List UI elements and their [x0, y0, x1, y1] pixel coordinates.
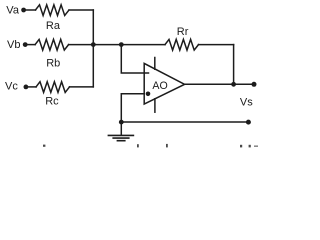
wire Rc to summing node [70, 86, 94, 88]
op-amp bottom supply pin [154, 99, 156, 112]
svg-text:Ra: Ra [46, 20, 61, 32]
wire ground stub [120, 122, 122, 135]
svg-text:Vs: Vs [240, 96, 253, 108]
svg-text:AO: AO [152, 80, 167, 92]
wire summing vertical [92, 10, 94, 87]
resistor Rr [165, 39, 199, 50]
op-amp top supply pin [154, 58, 156, 70]
junction inverting node [119, 42, 124, 47]
resistor Rb [35, 39, 69, 50]
junction non-inverting input dot [146, 92, 151, 97]
cropped caption fragments at bottom edge [43, 144, 258, 148]
wire feedback left lead [121, 44, 165, 46]
junction summing node [91, 42, 96, 47]
ground [108, 135, 135, 140]
junction output node [231, 82, 236, 87]
wire feedback down to output [233, 45, 235, 85]
wire non-inverting input [121, 94, 144, 122]
wire Va lead [26, 9, 36, 11]
svg-text:Rc: Rc [45, 96, 59, 108]
node Vc terminal [24, 85, 29, 90]
wire Ra to summing node [69, 9, 93, 11]
svg-text:Vb: Vb [7, 39, 20, 51]
resistor Ra [36, 5, 70, 16]
svg-text:Va: Va [6, 5, 20, 17]
svg-text:Rb: Rb [46, 58, 60, 70]
wire Vb lead [27, 44, 35, 46]
node Vb terminal [23, 42, 28, 47]
wire Vc lead [28, 86, 36, 88]
wire output [185, 83, 254, 85]
junction ground node [119, 120, 124, 125]
node Va terminal [21, 8, 26, 13]
wire feedback right lead [199, 44, 234, 46]
op-amp U1 triangle [144, 63, 184, 104]
wire bottom rail [121, 121, 248, 123]
svg-text:Rr: Rr [177, 26, 189, 38]
wire Rb to node [69, 44, 121, 46]
wire inverting input [121, 45, 148, 73]
node Vs terminal [252, 82, 257, 87]
svg-text:Vc: Vc [5, 81, 18, 93]
resistor Rc [36, 82, 70, 93]
node bottom-right terminal [246, 120, 251, 125]
